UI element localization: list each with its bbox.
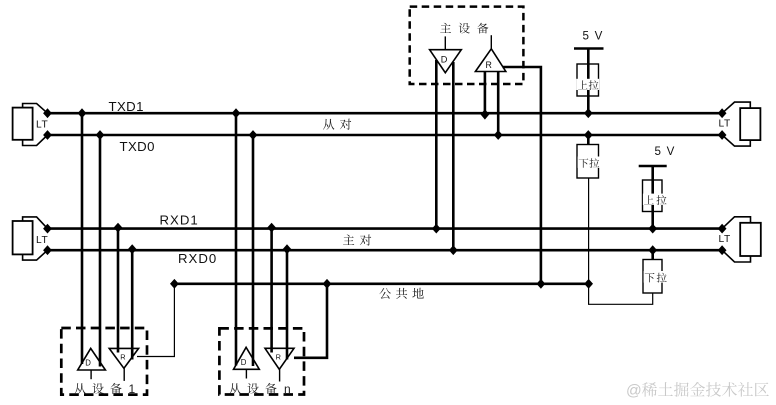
- wire master R input A to TXD1: [484, 72, 487, 114]
- svg-text:LT: LT: [36, 235, 48, 246]
- terminator resistor LT4 (right, master pair): [740, 223, 761, 256]
- label 从设备 1: [74, 383, 85, 394]
- node slave1 R/RXD1 junction: [114, 223, 123, 233]
- node slave2 D/TXD0 junction: [249, 130, 258, 140]
- wire TXD0 bus line (slave pair -): [48, 134, 723, 137]
- node master R/TXD1 junction (arrow): [481, 109, 490, 119]
- wire slave1 D output B to TXD0: [99, 135, 102, 367]
- node master R ref / ground junction: [537, 279, 546, 289]
- svg-text:@: @: [626, 383, 642, 400]
- svg-text:LT: LT: [719, 119, 731, 130]
- master device box 主设备 (dashed): [410, 7, 524, 84]
- node slave1 R/RXD0 junction: [128, 244, 137, 254]
- svg-text:TXD0: TXD0: [120, 139, 155, 154]
- label 从对 (slave pair): [323, 119, 334, 130]
- label 主对 (master pair): [343, 234, 354, 245]
- wire slave2 D output B to TXD0: [252, 135, 255, 366]
- wire slave2 R input B to RXD0: [286, 250, 289, 359]
- wire LT1 bottom lead: [23, 135, 48, 146]
- wire LT4 bottom lead: [722, 250, 750, 262]
- resistor 上拉 pull-up 1 (box): [577, 64, 599, 96]
- wire slave2 R input A to RXD1: [270, 229, 273, 353]
- wire RXD0 to pull-down resistor 2: [651, 250, 654, 259]
- wire ground jog to pull-down 2 (thin): [589, 284, 653, 305]
- resistor 下拉 pull-down 1 (box): [577, 145, 599, 179]
- wire LT1 top lead: [23, 104, 48, 114]
- svg-text:LT: LT: [36, 120, 48, 131]
- node pull-up2/RXD1 junction: [648, 224, 657, 234]
- wire TXD0 to pull-down resistor 1: [587, 135, 590, 145]
- resistor 上拉 pull-up 2 (box): [643, 180, 663, 212]
- wire LT2 bottom lead: [23, 250, 48, 260]
- driver U2-D (slave 1, points up): [78, 348, 106, 370]
- node TXD1 right end: [718, 108, 727, 118]
- node TXD1 left end: [43, 108, 52, 118]
- terminator resistor LT2 (left, master pair): [13, 221, 33, 254]
- node pull-up1/TXD1 junction: [584, 108, 593, 118]
- slave device 1 box (dashed): [61, 328, 147, 395]
- wire slave1 R reference to common ground (thin): [137, 284, 174, 357]
- wire 5V through pull-up resistor 1 to TXD1: [587, 49, 590, 114]
- svg-text:n: n: [284, 382, 291, 396]
- node RXD1 left end: [43, 224, 52, 234]
- wire slave2 D output A to TXD1: [235, 113, 238, 365]
- svg-text:TXD1: TXD1: [109, 99, 144, 114]
- svg-text:5 V: 5 V: [655, 145, 676, 158]
- svg-text:D: D: [441, 54, 448, 64]
- wire slave2 R reference to common ground: [294, 284, 327, 358]
- wire slave2 R output stub: [279, 369, 281, 381]
- svg-text:1: 1: [129, 382, 136, 396]
- wire slave1 D input stub: [90, 370, 92, 379]
- wire master D output B to RXD0: [452, 62, 455, 250]
- node pull-down2/RXD0 junction: [648, 245, 657, 255]
- svg-text:5 V: 5 V: [583, 30, 604, 43]
- node slave2 R ref / ground junction: [323, 279, 332, 289]
- wire RXD1 bus line (master pair +): [48, 227, 723, 230]
- resistor 下拉 pull-down 2 (box): [643, 260, 662, 294]
- node TXD0 left end: [43, 130, 52, 140]
- node pull-down1 / common ground junction: [584, 279, 593, 289]
- svg-text:R: R: [120, 352, 125, 361]
- node RXD0 left end: [43, 245, 52, 255]
- wire master R input B to TXD0: [497, 72, 500, 136]
- wire master receiver input stub: [490, 35, 492, 49]
- node TXD0 right end: [718, 130, 727, 140]
- terminator resistor LT3 (right, slave pair): [740, 108, 760, 140]
- wire LT2 top lead: [23, 217, 48, 229]
- svg-text:D: D: [241, 358, 247, 367]
- wire slave1 R input B to RXD0: [131, 250, 134, 359]
- wire pull-down 1 to ground (thin): [588, 178, 590, 284]
- label 公共地 (common ground): [379, 288, 391, 299]
- driver U3-D (slave n, points up): [234, 347, 260, 369]
- label 从设备 n: [229, 383, 240, 394]
- terminator resistor LT1 (left, slave pair): [13, 108, 33, 140]
- wire slave1 R input A to RXD1: [117, 229, 120, 353]
- receiver U1-R (master, points up): [475, 49, 505, 72]
- receiver U2-R (slave 1, points down): [109, 348, 138, 368]
- node slave2 R/RXD0 junction: [283, 244, 292, 254]
- node slave2 R/RXD1 junction: [267, 223, 276, 233]
- node slave1 D/TXD1 junction: [78, 108, 87, 118]
- power rail bar 5V #1: [574, 47, 604, 50]
- svg-text:R: R: [276, 352, 281, 361]
- node master D/RXD1 junction: [432, 224, 441, 234]
- slave device n box (dashed): [219, 328, 304, 394]
- wire slave1 R output stub: [123, 368, 125, 381]
- wire TXD1 bus line (slave pair +): [48, 112, 723, 115]
- wire LT3 bottom lead: [722, 135, 750, 146]
- node master D/RXD0 junction: [449, 245, 458, 255]
- node RXD1 right end: [718, 224, 727, 234]
- node slave1 D/TXD0 junction: [96, 130, 105, 140]
- driver U1-D (master, points down): [430, 50, 462, 73]
- wire LT4 top lead: [722, 217, 750, 229]
- svg-text:LT: LT: [719, 234, 731, 245]
- wire master driver input stub: [444, 36, 446, 49]
- wire 5V through pull-up resistor 2 to RXD1: [651, 166, 654, 229]
- wire slave2 D input stub: [245, 369, 247, 378]
- wire common ground bus 公共地: [174, 282, 589, 285]
- svg-text:RXD1: RXD1: [160, 213, 199, 228]
- wire RXD0 bus line (master pair -): [48, 249, 723, 252]
- svg-text:R: R: [486, 60, 492, 70]
- node common ground left end junction: [170, 279, 179, 289]
- receiver U3-R (slave n, points down): [265, 348, 294, 369]
- node master R/TXD0 junction: [494, 130, 503, 140]
- wire master R reference to common ground: [503, 67, 541, 284]
- wire LT3 top lead: [722, 102, 750, 113]
- node slave2 D/TXD1 junction: [232, 108, 241, 118]
- svg-text:D: D: [85, 359, 91, 368]
- label 主设备: [440, 23, 451, 33]
- svg-text:RXD0: RXD0: [178, 251, 217, 266]
- power rail bar 5V #2: [639, 165, 667, 168]
- node RXD0 right end: [718, 245, 727, 255]
- wire master D output A to RXD1: [435, 60, 438, 229]
- node pull-down1/TXD0 junction: [584, 130, 593, 140]
- wire slave1 D output A to TXD1: [81, 113, 84, 364]
